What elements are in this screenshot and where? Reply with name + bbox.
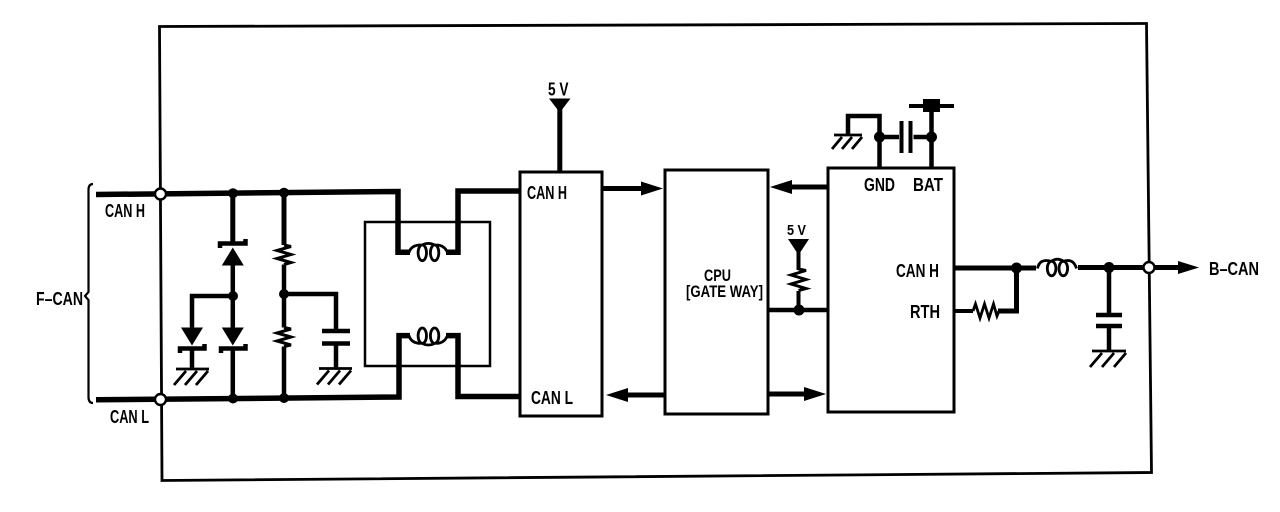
wire arrow B-CAN out [1155,261,1199,274]
wire CPU to gateway-IC data line [768,308,828,313]
inductor choke top coil [409,243,448,260]
wire gateway CAN H out [954,266,1036,271]
wire coil to B-CAN node [1078,265,1143,270]
capacitor C3 plates [1096,315,1122,326]
svg-text:[GATE WAY]: [GATE WAY] [686,282,763,301]
junction CAN H at resistor branch [279,188,289,198]
svg-text:B–CAN: B–CAN [1209,258,1259,279]
frame ECU boundary [160,24,1152,481]
label transceiver pin CAN H [527,182,567,203]
junction GND node [874,132,885,143]
wire arrow gateway-IC to CPU [770,180,828,194]
ground chassis capacitor C1 [317,369,352,385]
diode D1 zener [220,239,246,296]
label CAN L left [110,406,149,427]
junction CAN L at diode branch [228,394,238,404]
wire GND node to capacitor [880,135,900,140]
svg-text:CAN H: CAN H [896,260,939,281]
wire resistor to node [797,291,801,310]
wire arrow CPU to transceiver [606,388,666,402]
transceiver box [520,172,602,416]
diode D3 zener [221,296,246,400]
label pin GND [864,174,895,195]
wire RTH stub [954,309,973,313]
ground chassis diode D2 [174,369,209,385]
junction CAN L at resistor branch [279,393,289,403]
5V supply arrow U1 [548,80,571,173]
svg-text:BAT: BAT [913,174,944,195]
wire capacitor to BAT node [914,135,932,140]
wire GND loop to chassis [848,116,880,137]
wire capacitor to ground [1107,326,1112,350]
wire arrow transceiver to CPU [602,182,663,196]
terminal F-CAN H [155,189,166,200]
wire arrow CPU to gateway-IC [768,387,826,401]
resistor RTH termination [973,304,999,318]
wire mid node to left diode [192,296,233,328]
wire diode branch upper [230,193,235,243]
ground chassis near GND pin [832,135,862,149]
svg-text:CAN L: CAN L [110,406,149,427]
label F-CAN [36,288,83,309]
wire mid node to capacitor C1 [284,294,336,329]
bracket F-CAN bus [85,184,93,403]
label pin BAT [913,174,944,195]
svg-text:5 V: 5 V [548,80,569,100]
junction CAN H at diode branch [228,188,238,198]
inductor choke bottom coil [409,328,448,345]
junction pull-up node [794,305,805,316]
wire resistor branch upper [282,193,287,245]
diode D2 zener [180,328,205,370]
capacitor C1 plates [322,331,350,344]
wire RTH to CAN H node [998,268,1017,311]
label pin CAN H gateway [896,260,939,281]
svg-text:RTH: RTH [910,301,940,322]
gateway IC box [828,168,954,412]
wire CAN L main [96,336,520,400]
junction B-CAN node [1104,262,1115,273]
capacitor C2 plates [902,121,911,153]
label B-CAN [1209,258,1259,279]
wire BAT pin [929,106,934,168]
5V supply arrow U2 [787,222,809,270]
label CAN H left [105,200,145,221]
wire capacitor C1 to ground [334,344,339,369]
svg-text:CAN L: CAN L [531,387,573,408]
terminal F-CAN L [155,394,166,405]
inductor B-CAN filter coil [1038,259,1077,276]
resistor R1 [277,245,291,265]
choke box [365,222,490,366]
junction diode mid node [228,291,238,301]
wire resistor R2 stubs [282,294,287,399]
label pin RTH [910,301,940,322]
CPU box [665,170,768,414]
wire resistor mid [282,265,287,295]
svg-text:5 V: 5 V [787,222,806,239]
svg-text:CAN H: CAN H [527,182,567,203]
junction BAT node [926,132,937,143]
label GATE WAY [686,282,763,301]
junction resistor mid node [279,289,289,299]
ground chassis B-CAN filter [1090,351,1126,367]
label CPU [704,266,731,285]
svg-text:CAN H: CAN H [105,200,145,221]
wire capacitor stub [1107,268,1112,316]
battery feed terminal [909,99,954,112]
resistor R2 [277,328,291,347]
junction CAN H / RTH node [1011,263,1022,274]
terminal B-CAN [1144,262,1155,273]
svg-text:GND: GND [864,174,895,195]
label transceiver pin CAN L [531,387,573,408]
resistor pull-up R3 [791,269,806,291]
wire CAN H main [96,191,520,252]
wire GND pin [877,137,882,168]
svg-text:F–CAN: F–CAN [36,288,83,309]
